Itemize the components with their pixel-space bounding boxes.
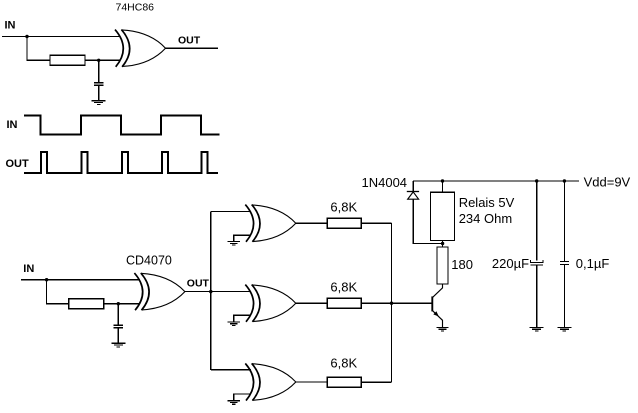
wire R5 to right bus	[361, 381, 391, 383]
svg-text:CD4070: CD4070	[126, 254, 172, 268]
wire U1 output	[166, 47, 219, 49]
svg-text:OUT: OUT	[178, 34, 201, 46]
wire U3 output to R3	[296, 222, 328, 224]
transistor Q1 collector	[432, 284, 442, 298]
wire relay top to Vdd rail	[442, 181, 444, 192]
diode D1 1N4004 cathode bar	[407, 191, 419, 193]
XOR gate U5 (buffer bottom)	[245, 363, 295, 400]
svg-text:1N4004: 1N4004	[362, 175, 408, 190]
wire R1 to XOR U1 input B	[85, 59, 121, 61]
wire C3 to ground	[536, 265, 538, 328]
resistor R1 (feedback)	[50, 55, 85, 65]
wire IN to XOR U2 input A	[21, 279, 140, 281]
svg-text:234 Ohm: 234 Ohm	[459, 211, 512, 226]
svg-text:IN: IN	[7, 119, 18, 131]
wire U4 output to R4	[296, 302, 328, 304]
capacitor C3 220uF (polarized)	[531, 260, 544, 265]
relay coil K1 (box)	[431, 192, 455, 240]
junction R1/C1 node	[97, 59, 100, 62]
wire relay bottom junction	[442, 241, 444, 247]
junction C3 on rail	[535, 179, 538, 182]
wire R4 to right bus	[361, 302, 391, 304]
svg-text:220µF: 220µF	[492, 256, 529, 271]
capacitor C1	[94, 83, 104, 86]
waveform IN square wave	[24, 116, 220, 135]
svg-text:Vdd=9V: Vdd=9V	[584, 175, 631, 190]
wire C1 to ground	[98, 85, 100, 100]
ground (emitter)	[436, 327, 448, 331]
wire IN to XOR U1 input A	[2, 36, 121, 38]
junction relay on rail	[441, 179, 444, 182]
XOR gate U2 (CD4070 oscillator)	[134, 273, 185, 310]
ground (top circuit)	[92, 101, 106, 105]
right bus wire (summing)	[391, 223, 393, 382]
wire D1 anode to relay bottom	[413, 199, 442, 243]
ground (U5 input B)	[228, 401, 240, 405]
svg-text:6,8K: 6,8K	[330, 199, 357, 214]
transistor Q1 base bar	[431, 296, 433, 311]
resistor R4 6,8K	[327, 298, 361, 308]
waveform OUT pulse train	[24, 152, 218, 173]
junction OUT on left bus	[209, 290, 212, 293]
svg-text:OUT: OUT	[187, 277, 210, 289]
junction relay/diode/R6	[441, 242, 444, 245]
XOR gate U4 (buffer middle)	[245, 285, 295, 322]
svg-text:74HC86: 74HC86	[116, 2, 155, 14]
svg-text:IN: IN	[5, 20, 16, 32]
resistor R3 6,8K	[327, 218, 361, 228]
svg-text:IN: IN	[23, 263, 34, 275]
svg-text:180: 180	[451, 257, 473, 272]
ground (U3 input B)	[228, 242, 240, 246]
wire junction down to R2	[47, 280, 69, 304]
wire rail down to C3	[536, 181, 538, 260]
XOR gate U1 (74HC86)	[115, 30, 166, 67]
ground (C4)	[557, 327, 571, 331]
wire C4 to ground	[563, 264, 565, 327]
resistor R2 (feedback)	[69, 299, 104, 309]
svg-text:Relais 5V: Relais 5V	[459, 195, 515, 210]
wire bus to XOR U5 input A	[211, 369, 251, 371]
wire rail corner down to D1	[412, 181, 414, 192]
wire U4 input B to ground stub	[234, 315, 251, 322]
wire node down to C1	[98, 60, 100, 82]
capacitor C4 0,1uF	[560, 261, 569, 264]
diode D1 triangle	[408, 192, 419, 199]
svg-text:6,8K: 6,8K	[330, 279, 357, 294]
wire rail down to C4	[563, 181, 565, 261]
wire bus to XOR U3 input A	[211, 210, 251, 212]
junction right bus to base	[390, 302, 393, 305]
wire U5 input B to ground stub	[234, 394, 251, 401]
svg-text:6,8K: 6,8K	[330, 356, 357, 371]
XOR gate U3 (buffer top)	[245, 205, 295, 242]
wire R3 to right bus	[361, 222, 391, 224]
ground (oscillator RC)	[111, 343, 125, 347]
Vdd power rail wire	[413, 180, 579, 182]
transistor Q1 emitter	[432, 310, 442, 327]
wire bus to transistor base	[392, 302, 433, 304]
junction R2/C2 node	[117, 302, 120, 305]
wire node down to C2	[117, 304, 119, 325]
wire U2 output to OUT bus	[185, 291, 211, 293]
left bus wire (OUT distribution)	[210, 211, 212, 369]
wire bus to XOR U4 input A	[211, 291, 251, 293]
ground (C3)	[530, 327, 544, 331]
junction at oscillator IN node	[45, 278, 48, 281]
emitter arrow	[433, 311, 439, 316]
capacitor C2	[114, 325, 124, 328]
svg-text:0,1µF: 0,1µF	[576, 256, 610, 271]
resistor R6 180 (vertical)	[437, 247, 448, 284]
ground (U4 input B)	[228, 322, 240, 326]
junction C4 on rail	[563, 179, 566, 182]
wire C2 to ground	[117, 328, 119, 344]
junction at IN node	[25, 35, 28, 38]
resistor R5 6,8K	[327, 377, 361, 387]
wire U5 output to R5	[296, 381, 328, 383]
wire junction down to R1	[27, 37, 50, 61]
wire R2 to XOR U2 input B	[104, 303, 140, 305]
svg-text:OUT: OUT	[6, 158, 30, 170]
wire U3 input B to ground stub	[234, 235, 251, 241]
